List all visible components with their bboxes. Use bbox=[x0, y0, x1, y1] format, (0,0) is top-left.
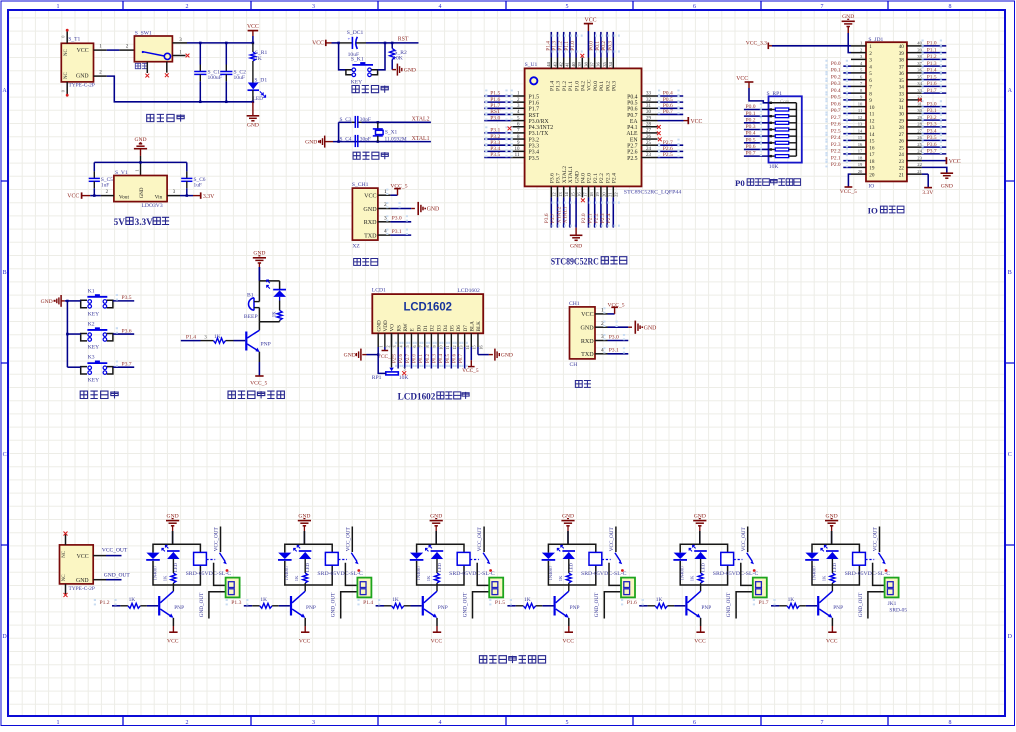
svg-text:P1.7: P1.7 bbox=[490, 103, 500, 109]
resistor element 6 of S_RP1 bbox=[770, 142, 772, 144]
transistor PNP relay unit 4 bbox=[554, 596, 556, 616]
wire net VCC_OUT relay unit 6 bbox=[879, 527, 881, 553]
svg-text:P1.3: P1.3 bbox=[552, 41, 558, 51]
resistor element 8 of S_RP1 bbox=[770, 155, 772, 157]
relay contact blade unit 3 bbox=[483, 553, 489, 561]
svg-text:S_SW1: S_SW1 bbox=[135, 31, 152, 37]
svg-text:P2.7: P2.7 bbox=[663, 140, 673, 146]
svg-text:P1.6: P1.6 bbox=[627, 600, 637, 606]
svg-text:P3.6: P3.6 bbox=[927, 142, 937, 148]
svg-text:VCC: VCC bbox=[585, 18, 597, 24]
wire net GND_OUT relay unit 5 bbox=[736, 592, 753, 619]
svg-text:C: C bbox=[1008, 452, 1012, 458]
wire net P2.1 bbox=[594, 197, 596, 227]
diode 1N4007 relay unit 1 bbox=[146, 553, 159, 559]
svg-text:P1.4: P1.4 bbox=[186, 334, 196, 340]
wire net P3.5 bbox=[113, 300, 134, 302]
svg-text:P0.6: P0.6 bbox=[452, 353, 457, 363]
svg-text:3: 3 bbox=[869, 58, 872, 64]
pin 2 of LCD1 bbox=[384, 333, 386, 347]
svg-text:43: 43 bbox=[552, 62, 557, 67]
svg-text:34: 34 bbox=[608, 62, 613, 67]
svg-text:S_X1: S_X1 bbox=[385, 130, 398, 136]
wire net P0.2 JD1 bbox=[843, 79, 851, 81]
no-connect marker pin 39 bbox=[580, 54, 584, 58]
svg-text:S_CH1: S_CH1 bbox=[352, 182, 369, 188]
svg-text:1K: 1K bbox=[426, 575, 431, 581]
wire net P0.1 bbox=[600, 32, 602, 58]
power port 3.3V right bbox=[180, 195, 193, 197]
pin 2 of S_U1 left bbox=[511, 101, 525, 103]
svg-text:GND_OUT: GND_OUT bbox=[726, 592, 732, 617]
svg-text:41: 41 bbox=[565, 62, 570, 67]
svg-text:K1: K1 bbox=[88, 288, 95, 294]
pin 4 of S_JD1 left bbox=[851, 65, 866, 67]
svg-text:B: B bbox=[3, 270, 7, 276]
svg-text:P0.5: P0.5 bbox=[446, 353, 451, 363]
pin 19 of S_JD1 left bbox=[851, 166, 866, 168]
svg-text:P0.0: P0.0 bbox=[593, 81, 599, 91]
pin 10 of LCD1 bbox=[437, 333, 439, 347]
wire net P1.3 JD1 bbox=[922, 65, 946, 67]
crystal S_X1 11.0592M bbox=[377, 122, 379, 129]
resistor 1K led relay unit 6 bbox=[830, 573, 835, 583]
svg-text:16: 16 bbox=[869, 145, 875, 151]
wire net P3.3 JD1 bbox=[922, 126, 946, 128]
wire net P1.5 bbox=[484, 95, 511, 97]
svg-text:P0.6: P0.6 bbox=[627, 107, 638, 113]
relay contact blade unit 6 bbox=[879, 553, 885, 561]
pin 13 of LCD1 bbox=[457, 333, 459, 347]
svg-text:P1.3: P1.3 bbox=[231, 600, 241, 606]
svg-text:P2.5: P2.5 bbox=[831, 128, 841, 134]
pin 24 of S_JD1 right bbox=[907, 153, 922, 155]
pin 44 of S_U1 top bbox=[550, 58, 552, 69]
power port VCC left bbox=[81, 192, 83, 198]
pin 42 of S_U1 top bbox=[563, 58, 565, 69]
ground GND mcu bottom bbox=[575, 197, 577, 227]
pin 19 of S_U1 bottom bbox=[594, 186, 596, 197]
wire net P3.4 bbox=[484, 150, 511, 152]
svg-text:P0.1: P0.1 bbox=[831, 68, 841, 74]
wire net VCC_OUT relay unit 1 bbox=[220, 527, 222, 553]
svg-text:P0.5: P0.5 bbox=[663, 97, 673, 103]
capacitor S_C6 1uF bbox=[186, 170, 188, 171]
pin 21 of S_U1 bottom bbox=[606, 186, 608, 197]
svg-text:SRD-05VDC-SL-C: SRD-05VDC-SL-C bbox=[449, 572, 495, 577]
connector TYPE-C-2P output body bbox=[60, 545, 94, 584]
svg-text:10K: 10K bbox=[393, 56, 403, 62]
svg-text:A: A bbox=[2, 88, 7, 94]
wire net P0.3 bbox=[612, 32, 614, 58]
pin 14 of S_U1 bottom bbox=[563, 186, 565, 197]
power port VCC_5 LCD pin15 bbox=[470, 347, 472, 360]
svg-text:P1.2: P1.2 bbox=[558, 41, 564, 51]
svg-text:P0.7: P0.7 bbox=[746, 151, 756, 157]
svg-text:GND: GND bbox=[941, 183, 953, 189]
svg-text:D2: D2 bbox=[430, 325, 436, 332]
svg-text:36: 36 bbox=[596, 62, 601, 67]
svg-text:P0.4: P0.4 bbox=[746, 131, 756, 137]
power port VCC relay unit 5 bbox=[700, 618, 702, 626]
svg-text:23: 23 bbox=[646, 153, 652, 158]
svg-text:PNP: PNP bbox=[833, 605, 843, 611]
svg-text:Vin: Vin bbox=[155, 195, 163, 201]
svg-text:PNP: PNP bbox=[261, 342, 271, 348]
power port VCC relay unit 2 bbox=[304, 618, 306, 626]
svg-text:1K: 1K bbox=[821, 575, 826, 581]
svg-text:3: 3 bbox=[312, 720, 315, 726]
power port VCC relay unit 1 bbox=[172, 618, 174, 626]
relay coil K1 bbox=[194, 552, 207, 565]
resistor pack S_RP1 body bbox=[769, 96, 802, 162]
svg-text:GND: GND bbox=[134, 137, 146, 143]
wire net VCC_OUT relay unit 4 bbox=[615, 527, 617, 553]
jack JK5 body bbox=[753, 578, 767, 598]
wire net P0.2 pullup bbox=[744, 122, 769, 124]
svg-text:P0.1: P0.1 bbox=[419, 353, 424, 363]
pin 9 of S_U1 left bbox=[511, 144, 525, 146]
svg-text:P2.5: P2.5 bbox=[663, 152, 673, 158]
wire relay pole to jack unit 1 bbox=[214, 563, 226, 586]
svg-text:P3.4: P3.4 bbox=[927, 128, 937, 134]
svg-text:P0.3: P0.3 bbox=[432, 353, 437, 363]
svg-text:33: 33 bbox=[646, 92, 652, 97]
svg-text:7: 7 bbox=[419, 345, 424, 347]
wire net P0.6 bbox=[658, 107, 684, 109]
svg-text:1uF: 1uF bbox=[194, 183, 202, 189]
svg-text:GND: GND bbox=[363, 207, 377, 213]
svg-text:Vout: Vout bbox=[119, 195, 130, 201]
pin 20 of S_JD1 left bbox=[851, 173, 866, 175]
wire net GND_OUT from connector bbox=[93, 579, 106, 581]
svg-text:1N4007: 1N4007 bbox=[811, 565, 816, 581]
wire emitter to VCC_5 bbox=[258, 352, 260, 362]
svg-text:P3.1: P3.1 bbox=[392, 229, 402, 235]
svg-text:PNP: PNP bbox=[306, 605, 316, 611]
pin 11 of S_JD1 left bbox=[851, 112, 866, 114]
pin 30 of S_U1 right bbox=[642, 113, 658, 115]
svg-text:P1.6: P1.6 bbox=[490, 97, 500, 103]
pin 4 TXD of S_CH1 net P3.1 bbox=[378, 234, 391, 236]
wire net P3.5 JD1 bbox=[922, 139, 946, 141]
pin NC bottom of S_T1 bbox=[66, 82, 68, 95]
svg-text:P3.7: P3.7 bbox=[927, 149, 937, 155]
svg-text:VCC_OUT: VCC_OUT bbox=[214, 526, 220, 551]
svg-text:P3.2: P3.2 bbox=[529, 137, 540, 143]
wire K1 to rail bbox=[67, 300, 80, 302]
wire net P1.2 JD1 bbox=[922, 58, 946, 60]
wire net P2.5 bbox=[658, 157, 684, 159]
svg-text:SRD-05VDC-SL-C: SRD-05VDC-SL-C bbox=[317, 572, 363, 577]
label power circuit title bbox=[147, 114, 185, 121]
pin 23 of S_U1 right bbox=[642, 157, 658, 159]
svg-text:VCC: VCC bbox=[77, 48, 89, 54]
wire net P1.1 JD1 bbox=[922, 52, 946, 54]
pin 12 of LCD1 bbox=[450, 333, 452, 347]
pin 24 of S_U1 right bbox=[642, 150, 658, 152]
svg-text:P2.2: P2.2 bbox=[831, 149, 841, 155]
ground GND reset bbox=[392, 69, 396, 71]
svg-text:7: 7 bbox=[869, 85, 872, 91]
wire net P0.0 bbox=[594, 32, 596, 58]
svg-text:P1.1: P1.1 bbox=[568, 81, 574, 91]
diode 1N4007 relay unit 3 bbox=[410, 553, 423, 559]
svg-text:8: 8 bbox=[869, 91, 872, 97]
svg-text:1N4007: 1N4007 bbox=[548, 565, 553, 581]
resistor 1K alarm bbox=[279, 301, 281, 311]
wire net P1.4 JD1 bbox=[922, 72, 946, 74]
svg-text:B: B bbox=[1008, 270, 1012, 276]
led relay unit 3 bbox=[426, 545, 433, 551]
label reset circuit title bbox=[352, 85, 388, 92]
svg-text:GND: GND bbox=[574, 171, 580, 183]
pin 4 TXD of CH1 net P3.1 bbox=[595, 353, 608, 355]
svg-text:22: 22 bbox=[899, 166, 905, 172]
svg-text:1N4007: 1N4007 bbox=[680, 565, 685, 581]
svg-text:LED: LED bbox=[253, 96, 264, 102]
power port VCC bbox=[248, 30, 259, 32]
svg-text:P1.2: P1.2 bbox=[100, 600, 110, 606]
svg-text:GND_OUT: GND_OUT bbox=[331, 592, 337, 617]
pin 32 of S_JD1 right bbox=[907, 99, 922, 101]
svg-text:RST: RST bbox=[490, 109, 501, 115]
wire net P0.6 LCD bbox=[457, 347, 459, 369]
svg-text:P2.1: P2.1 bbox=[587, 213, 593, 223]
svg-text:38: 38 bbox=[899, 58, 905, 64]
pin 32 of S_U1 right bbox=[642, 101, 658, 103]
junction bottom rail bbox=[199, 101, 202, 104]
diode S_D1 LED bbox=[252, 61, 254, 83]
svg-text:10: 10 bbox=[515, 147, 521, 152]
svg-text:EA: EA bbox=[630, 119, 639, 125]
pin 2 GND of S_CH1 to ground bbox=[378, 208, 391, 210]
diode 1N4007 relay unit 2 bbox=[278, 553, 291, 559]
svg-text:P3.6: P3.6 bbox=[544, 213, 550, 223]
jack JK1 body bbox=[226, 578, 240, 598]
wire net VCC_OUT relay unit 2 bbox=[351, 527, 353, 553]
svg-text:P2.0: P2.0 bbox=[831, 162, 841, 168]
svg-text:P0.4: P0.4 bbox=[663, 91, 673, 97]
svg-text:P0.1: P0.1 bbox=[599, 81, 605, 91]
label buttons title bbox=[80, 391, 118, 398]
wire net P3.7 JD1 bbox=[922, 153, 946, 155]
wire net P2.3 JD1 bbox=[843, 146, 851, 148]
svg-text:32: 32 bbox=[899, 98, 905, 104]
pin 3 RXD of S_CH1 net P3.0 bbox=[378, 221, 391, 223]
svg-text:C: C bbox=[3, 452, 7, 458]
pin 3 of LCD1 bbox=[391, 333, 393, 347]
svg-text:P2.7: P2.7 bbox=[831, 115, 841, 121]
pin 27 of S_JD1 right bbox=[907, 133, 922, 135]
svg-text:GND: GND bbox=[76, 73, 89, 79]
svg-text:12: 12 bbox=[869, 118, 875, 124]
svg-text:VCC_OUT: VCC_OUT bbox=[873, 526, 879, 551]
svg-text:6: 6 bbox=[693, 4, 696, 10]
wire net VCC_OUT relay unit 3 bbox=[483, 527, 485, 553]
svg-text:24: 24 bbox=[899, 152, 905, 158]
svg-text:GND: GND bbox=[247, 122, 259, 128]
svg-text:VCC_OUT: VCC_OUT bbox=[741, 526, 747, 551]
transistor PNP relay unit 3 bbox=[422, 596, 424, 616]
pin 1 of S_SW1 no-connect bbox=[172, 55, 185, 57]
pin 15 of LCD1 bbox=[470, 333, 472, 347]
svg-text:K3: K3 bbox=[88, 355, 95, 361]
wire net P0.0 pullup bbox=[744, 109, 769, 111]
label alarm title bbox=[228, 391, 284, 398]
svg-text:SRD-05VDC-SL-C: SRD-05VDC-SL-C bbox=[581, 572, 627, 577]
pin 36 of S_U1 top bbox=[600, 58, 602, 69]
svg-text:TYPE-C-2P: TYPE-C-2P bbox=[69, 83, 95, 89]
svg-text:VCC: VCC bbox=[587, 79, 593, 91]
resistor 1K led relay unit 2 bbox=[303, 573, 308, 583]
svg-text:GND_OUT: GND_OUT bbox=[104, 572, 131, 578]
svg-text:1: 1 bbox=[379, 345, 384, 347]
svg-text:BLK: BLK bbox=[476, 321, 482, 332]
svg-text:XZ: XZ bbox=[352, 243, 360, 249]
svg-text:VCC: VCC bbox=[562, 639, 574, 645]
svg-text:SRD-05VDC-SL-C: SRD-05VDC-SL-C bbox=[186, 572, 232, 577]
resistor element 4 of S_RP1 bbox=[770, 128, 772, 130]
svg-text:LED: LED bbox=[569, 562, 574, 572]
svg-text:NC: NC bbox=[64, 72, 69, 79]
svg-text:15: 15 bbox=[869, 139, 875, 145]
pin 14 of S_JD1 left bbox=[851, 133, 866, 135]
switch S_SW1 lever bbox=[142, 51, 144, 53]
svg-text:3.3V: 3.3V bbox=[135, 217, 153, 227]
wire net P2.5 JD1 bbox=[843, 133, 851, 135]
svg-text:P0.0: P0.0 bbox=[589, 41, 595, 51]
svg-text:P2.4: P2.4 bbox=[831, 135, 841, 141]
svg-text:28: 28 bbox=[646, 122, 652, 127]
wire net P2.2 bbox=[600, 197, 602, 227]
svg-text:14: 14 bbox=[869, 132, 875, 138]
svg-text:VCC: VCC bbox=[77, 554, 89, 560]
svg-text:P0.7: P0.7 bbox=[831, 108, 841, 114]
svg-text:11: 11 bbox=[445, 345, 450, 349]
svg-text:P3.0: P3.0 bbox=[609, 334, 619, 340]
relay contact blade unit 1 bbox=[220, 553, 226, 561]
wire net P3.0 bbox=[484, 120, 511, 122]
wire net P0.5 bbox=[658, 101, 684, 103]
svg-text:P3.1: P3.1 bbox=[927, 108, 937, 114]
svg-text:GND: GND bbox=[76, 578, 89, 584]
svg-text:P0.6: P0.6 bbox=[831, 101, 841, 107]
wire base net P1.6 relay unit 5 bbox=[639, 605, 647, 607]
wire net P1.7 bbox=[484, 107, 511, 109]
pin 20 of S_U1 bottom bbox=[600, 186, 602, 197]
svg-text:TYPE-C-2P: TYPE-C-2P bbox=[69, 586, 95, 592]
lcd LCD1 body bbox=[372, 294, 483, 333]
svg-text:P2.7: P2.7 bbox=[406, 353, 411, 363]
svg-text:5: 5 bbox=[566, 720, 569, 726]
svg-text:P2.0: P2.0 bbox=[581, 213, 587, 223]
wire net P3.6 JD1 bbox=[922, 146, 946, 148]
svg-text:P0.2: P0.2 bbox=[605, 81, 611, 91]
wire net P0.6 JD1 bbox=[843, 106, 851, 108]
pin 33 of S_U1 right bbox=[642, 95, 658, 97]
svg-text:KEY: KEY bbox=[88, 344, 100, 350]
wire net P0.3 pullup bbox=[744, 128, 769, 130]
led relay unit 6 bbox=[821, 545, 828, 551]
svg-text:P1.2: P1.2 bbox=[562, 81, 568, 91]
wire base net P1.2 relay unit 1 bbox=[112, 605, 120, 607]
jack JK2 body bbox=[357, 578, 371, 598]
svg-text:P1.5: P1.5 bbox=[529, 94, 540, 100]
svg-text:VCC: VCC bbox=[581, 312, 594, 318]
transistor PNP relay unit 5 bbox=[685, 596, 687, 616]
svg-text:LDO3V3: LDO3V3 bbox=[142, 203, 163, 209]
wire net P2.6 JD1 bbox=[843, 126, 851, 128]
svg-text:5V: 5V bbox=[114, 217, 126, 227]
node top alarm bbox=[258, 267, 260, 281]
svg-text:P0.4: P0.4 bbox=[627, 94, 638, 100]
label crystal circuit title bbox=[353, 152, 388, 159]
diode 1N4007 relay unit 4 bbox=[542, 553, 555, 559]
pin 2 of S_JD1 left bbox=[851, 52, 866, 54]
power port VCC relay unit 6 bbox=[831, 618, 833, 626]
svg-text:6: 6 bbox=[412, 345, 417, 347]
pin 16 of S_U1 bottom bbox=[575, 186, 577, 197]
svg-text:P0.3: P0.3 bbox=[612, 81, 618, 91]
svg-text:17: 17 bbox=[583, 192, 588, 197]
wire net RST bbox=[484, 113, 511, 115]
svg-text:18: 18 bbox=[858, 155, 863, 160]
svg-text:21: 21 bbox=[608, 192, 613, 197]
capacitor S_C5 1uF bbox=[93, 170, 95, 171]
svg-text:13: 13 bbox=[558, 192, 563, 197]
wire net P1.7 JD1 bbox=[922, 92, 946, 94]
power port VCC relay unit 4 bbox=[568, 618, 570, 626]
wire net P0.5 JD1 bbox=[843, 99, 851, 101]
svg-text:D3: D3 bbox=[436, 325, 442, 332]
switch S_SW1 body bbox=[134, 36, 172, 62]
svg-text:1K: 1K bbox=[294, 575, 299, 581]
svg-text:29: 29 bbox=[899, 118, 905, 124]
svg-text:GND: GND bbox=[305, 140, 317, 146]
pin 21 of S_JD1 right bbox=[907, 173, 922, 175]
svg-text:LED: LED bbox=[173, 562, 178, 572]
pin 7 of S_JD1 left bbox=[851, 85, 866, 87]
dashed link relay coils bbox=[206, 559, 215, 561]
node bottom alarm bbox=[259, 321, 279, 323]
svg-text:RW: RW bbox=[403, 323, 409, 331]
wire net P2.6 bbox=[658, 150, 684, 152]
svg-text:2: 2 bbox=[186, 720, 189, 726]
svg-text:P2.3: P2.3 bbox=[600, 213, 606, 223]
svg-text:GND: GND bbox=[580, 326, 594, 332]
pin 34 of S_JD1 right bbox=[907, 85, 922, 87]
wire net GND_OUT relay unit 1 bbox=[209, 592, 226, 619]
svg-text:12: 12 bbox=[552, 192, 557, 197]
svg-text:VCC: VCC bbox=[247, 24, 259, 30]
svg-text:XTAL1: XTAL1 bbox=[568, 166, 574, 183]
resistor 1K led relay unit 3 bbox=[435, 573, 440, 583]
svg-text:TXD: TXD bbox=[581, 352, 594, 358]
wire net VCC_OUT relay unit 5 bbox=[747, 527, 749, 553]
wire loop relay unit 2 bbox=[285, 544, 332, 552]
relay coil K3 bbox=[457, 552, 470, 565]
svg-text:29: 29 bbox=[646, 116, 652, 121]
wire net P2.0 JD1 bbox=[843, 166, 851, 168]
svg-text:26: 26 bbox=[899, 139, 905, 145]
pin 7 of LCD1 bbox=[417, 333, 419, 347]
junction bbox=[199, 42, 202, 45]
svg-text:20: 20 bbox=[869, 172, 875, 178]
svg-text:P3.0: P3.0 bbox=[392, 216, 402, 222]
svg-text:P2.4: P2.4 bbox=[606, 213, 612, 223]
wire net P0.7 JD1 bbox=[843, 112, 851, 114]
